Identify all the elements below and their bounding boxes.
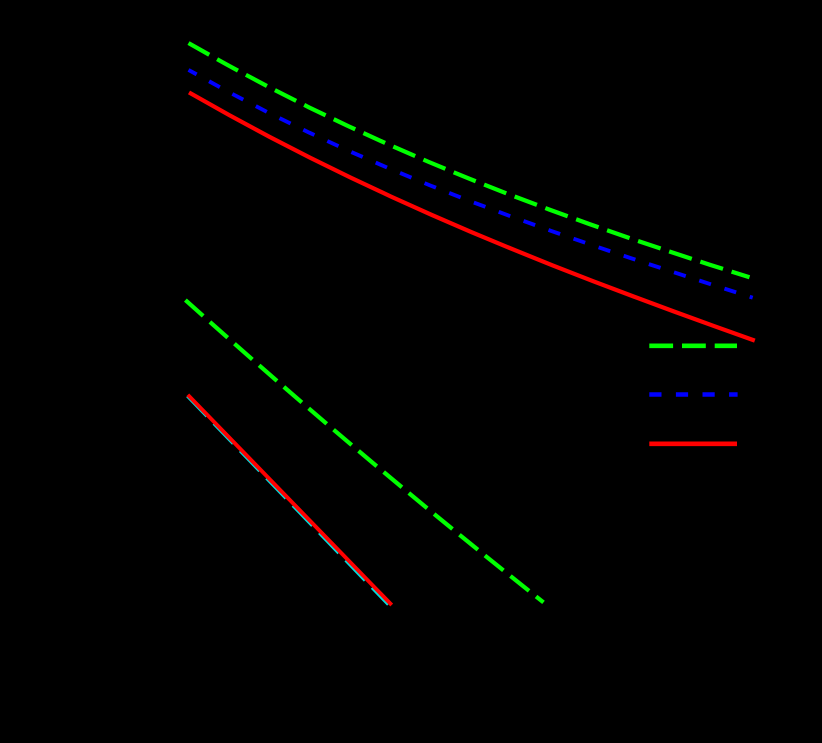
line cyan dashed bottom (under red) — [187, 397, 388, 605]
line green dashed bottom — [185, 300, 543, 602]
curve green dashed top — [189, 43, 750, 277]
legend blue dashed swatch — [649, 392, 737, 397]
legend red solid swatch — [649, 441, 737, 446]
curve blue dashed top — [189, 70, 753, 298]
line red solid bottom — [188, 395, 392, 605]
legend green dashed swatch — [649, 343, 737, 348]
curve red solid top — [189, 92, 755, 340]
